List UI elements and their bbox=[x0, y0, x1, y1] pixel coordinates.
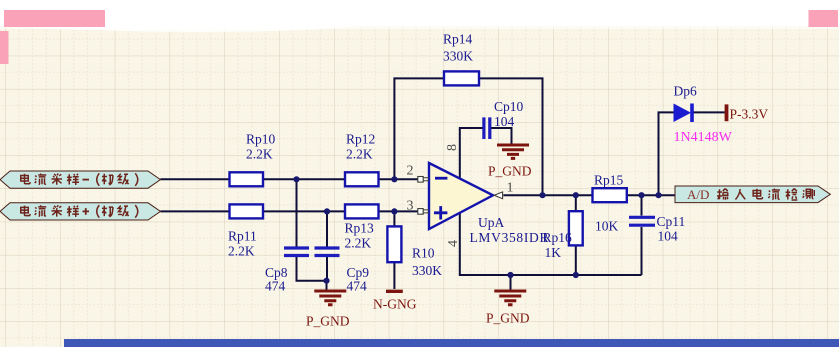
svg-text:2.2K: 2.2K bbox=[246, 147, 273, 162]
svg-text:474: 474 bbox=[347, 279, 368, 294]
svg-text:N-GNG: N-GNG bbox=[373, 297, 417, 312]
svg-text:P-3.3V: P-3.3V bbox=[730, 107, 769, 122]
junction: R10 tap on non-inverting net bbox=[391, 208, 397, 214]
svg-text:P_GND: P_GND bbox=[488, 164, 532, 179]
wire: Cp8 tap vertical bbox=[296, 179, 298, 246]
svg-text:104: 104 bbox=[658, 229, 679, 244]
resistor Rp11 bbox=[228, 204, 263, 258]
junction: Rp16 top on output net bbox=[573, 192, 579, 198]
junction: Cp9 tap on non-inverting net bbox=[324, 208, 330, 214]
junction: Cp11 top on output net bbox=[638, 192, 644, 198]
pink mark top-left bbox=[4, 10, 105, 27]
pink mark left edge bbox=[0, 31, 9, 64]
wire: Cp8/Cp9 bottom join to ground bbox=[297, 257, 328, 290]
junction: Rp16 bottom on ground rail bbox=[573, 272, 579, 278]
pin 3 stub bbox=[407, 199, 430, 215]
ground N-GNG bar bbox=[373, 291, 417, 311]
svg-text:Cp11: Cp11 bbox=[657, 214, 686, 229]
junction: P_GND tap on ground rail bbox=[507, 272, 513, 278]
capacitor Cp9 bbox=[315, 248, 370, 294]
pink mark top-right bbox=[809, 10, 839, 27]
svg-text:UpA: UpA bbox=[478, 215, 504, 230]
svg-text:A/D: A/D bbox=[687, 187, 709, 202]
port P1: 电流采样-（初级） bbox=[0, 171, 160, 188]
svg-text:Rp11: Rp11 bbox=[228, 229, 257, 244]
svg-text:3: 3 bbox=[407, 199, 414, 214]
wire: pin4 down and bottom rail bbox=[460, 195, 642, 289]
capacitor Cp10 (horizontal) bbox=[484, 99, 524, 139]
resistor Rp16 (vertical) bbox=[543, 211, 583, 260]
power port P-3.3V bbox=[727, 104, 769, 121]
svg-text:P_GND: P_GND bbox=[306, 314, 350, 329]
wire: pin8 and Cp10 leads bbox=[460, 128, 512, 179]
diode Dp6 bbox=[674, 84, 733, 146]
svg-text:330K: 330K bbox=[443, 49, 473, 64]
svg-text:104: 104 bbox=[494, 114, 515, 129]
svg-text:2.2K: 2.2K bbox=[228, 244, 255, 259]
wire: feedback loop bbox=[394, 78, 542, 195]
wire: output net bbox=[503, 194, 675, 196]
svg-text:Rp10: Rp10 bbox=[246, 132, 276, 147]
resistor R10 (vertical) bbox=[387, 226, 442, 278]
junction: feedback tie on output net bbox=[539, 192, 545, 198]
pin 2 stub bbox=[407, 164, 430, 183]
op-amp UpA LMV358IDR bbox=[429, 163, 549, 245]
svg-text:Dp6: Dp6 bbox=[674, 84, 697, 99]
resistor Rp13 bbox=[345, 204, 379, 250]
resistor Rp15 bbox=[593, 173, 627, 234]
resistor Rp14 bbox=[443, 32, 479, 86]
wire: plus input net horizontal bbox=[160, 210, 419, 212]
svg-text:1K: 1K bbox=[545, 245, 562, 260]
wire: R10 tap vertical bbox=[393, 211, 395, 289]
resistor Rp12 bbox=[345, 132, 379, 187]
blue bar bottom bbox=[64, 339, 839, 347]
wire: minus input net horizontal bbox=[160, 178, 419, 180]
pin 1 stub bbox=[494, 180, 513, 198]
svg-text:P_GND: P_GND bbox=[486, 311, 530, 326]
svg-text:2.2K: 2.2K bbox=[345, 236, 372, 251]
wire: Cp9 tap vertical bbox=[326, 211, 328, 246]
svg-text:474: 474 bbox=[265, 279, 286, 294]
capacitor Cp11 bbox=[629, 214, 685, 244]
svg-text:Rp13: Rp13 bbox=[345, 221, 375, 236]
ground P_GND (bottom middle) bbox=[486, 291, 530, 326]
wire: diode branch bbox=[659, 112, 725, 195]
junction: diode branch on output net bbox=[655, 192, 661, 198]
svg-text:LMV358IDR: LMV358IDR bbox=[470, 230, 549, 245]
resistor Rp10 bbox=[230, 132, 276, 187]
svg-text:330K: 330K bbox=[412, 263, 442, 278]
svg-text:10K: 10K bbox=[595, 219, 619, 234]
svg-text:8: 8 bbox=[445, 144, 460, 151]
svg-text:1N4148W: 1N4148W bbox=[674, 130, 733, 145]
svg-text:Rp15: Rp15 bbox=[594, 173, 624, 188]
svg-text:Rp12: Rp12 bbox=[346, 132, 375, 147]
port P2: 电流采样+（初级） bbox=[0, 203, 160, 220]
svg-text:R10: R10 bbox=[412, 246, 435, 261]
ground P_GND (top, under Cp10) bbox=[488, 145, 532, 179]
svg-text:2.2K: 2.2K bbox=[346, 147, 373, 162]
ground P_GND (left, under Cp8/Cp9) bbox=[306, 291, 350, 329]
junction: feedback tap on inverting net bbox=[391, 176, 397, 182]
capacitor Cp8 bbox=[265, 248, 309, 294]
svg-text:Rp14: Rp14 bbox=[443, 32, 473, 47]
svg-text:4: 4 bbox=[446, 240, 461, 247]
svg-text:2: 2 bbox=[407, 164, 414, 179]
white top band bbox=[0, 0, 839, 26]
junction: Cp8/Cp9 bottom join bbox=[323, 278, 329, 284]
svg-text:Cp10: Cp10 bbox=[494, 99, 524, 114]
junction: Cp8 tap on inverting net bbox=[293, 176, 299, 182]
port P3: A/D输入电流检测 bbox=[675, 186, 830, 203]
svg-text:1: 1 bbox=[507, 180, 514, 195]
